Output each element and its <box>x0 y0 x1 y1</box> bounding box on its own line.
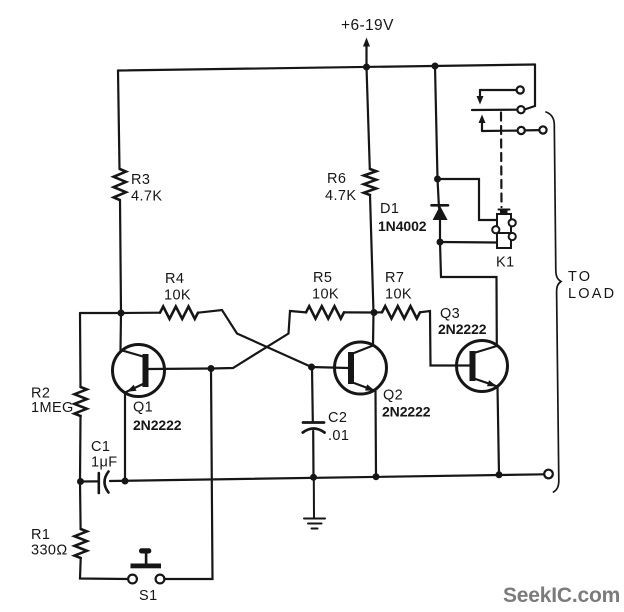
svg-text:1MEG: 1MEG <box>31 400 74 416</box>
svg-text:S1: S1 <box>139 588 158 604</box>
wire: Q3 emitter lead <box>498 387 500 475</box>
node: rail / D1 branch <box>432 63 439 70</box>
wire: left rail down to R3 <box>118 71 120 170</box>
relay actuation dashed link <box>500 113 503 208</box>
label R7 10K <box>385 270 412 303</box>
svg-text:10K: 10K <box>164 288 191 304</box>
ground <box>304 477 325 528</box>
capacitor C1 <box>99 472 109 494</box>
label C2 .01 <box>328 410 349 444</box>
resistor R5 <box>306 306 344 318</box>
svg-text:SeekIC.com: SeekIC.com <box>503 584 620 607</box>
wire: R1 bottom to S1 <box>80 558 128 579</box>
resistor R2 <box>74 387 86 416</box>
wire: R4 to Q2 base (cross link) <box>198 310 312 367</box>
relay contact NO (bottom) <box>479 115 547 135</box>
diode D1 1N4002 <box>432 179 449 242</box>
label Q2 2N2222 <box>382 388 431 420</box>
svg-text:1μF: 1μF <box>91 455 117 471</box>
svg-text:2N2222: 2N2222 <box>382 404 431 420</box>
resistor R6 <box>364 169 376 195</box>
svg-text:.01: .01 <box>328 428 349 444</box>
wire: C1 node down to R1 <box>79 482 82 530</box>
svg-text:LOAD: LOAD <box>568 286 616 302</box>
wire: R3 to Q1 collector node <box>120 200 121 313</box>
label R5 10K <box>312 270 339 303</box>
wire: coil node to Q3 collector <box>440 242 497 346</box>
switch S1 contact left <box>128 575 137 584</box>
svg-text:Q2: Q2 <box>383 388 403 404</box>
label C1 1uF <box>91 439 117 471</box>
wire: D1 top to coil top <box>438 179 498 220</box>
wire: Q1 emitter lead <box>124 393 126 482</box>
label R1 330ohm <box>31 527 68 559</box>
relay contact NC (top) <box>477 86 524 104</box>
wire: Q1 base to R5 (cross link) <box>211 311 306 369</box>
wire: R2 to C1 node <box>79 416 82 482</box>
node: R5/R6/R7 junction <box>371 309 378 316</box>
node: Q2 emitter / rail <box>373 473 380 480</box>
svg-text:4.7K: 4.7K <box>325 188 356 204</box>
label Q1 2N2222 <box>133 400 182 434</box>
svg-text:Q1: Q1 <box>133 400 153 416</box>
node: Q1 base <box>208 365 215 372</box>
terminal: load bottom <box>544 470 553 479</box>
node: D1 bottom <box>437 239 444 246</box>
label R3 4.7K <box>131 172 162 205</box>
svg-text:R6: R6 <box>327 171 346 187</box>
wire: rail drop to relay pole <box>525 65 536 110</box>
resistor R1 <box>75 529 87 558</box>
wire: S1 to Q1 base riser <box>164 369 212 580</box>
node: R3/R4/R2 junction <box>118 310 125 317</box>
resistor R7 <box>382 306 420 318</box>
switch S1 button <box>131 548 162 568</box>
transistor Q1 2N2222 <box>113 345 212 397</box>
node: rail / R6 branch <box>363 64 370 71</box>
svg-text:1N4002: 1N4002 <box>378 218 427 234</box>
node: Q3 emitter / rail <box>496 471 503 478</box>
wire: D1 bottom to coil bottom <box>440 241 497 244</box>
wire: Q2 emitter lead <box>374 391 377 477</box>
wire: bottom rail left (C1 left lead) <box>80 480 97 482</box>
resistor R3 <box>114 169 126 200</box>
resistor R4 <box>160 307 198 319</box>
wire: down to R2 <box>79 313 82 387</box>
node: Q2 base <box>308 364 315 371</box>
wire: R7 left lead <box>374 311 382 313</box>
svg-text:10K: 10K <box>385 287 412 303</box>
label R6 4.7K <box>325 171 356 204</box>
wire: +V top rail <box>118 65 535 71</box>
label R2 1MEG <box>31 386 74 417</box>
wire: R4 left lead <box>121 312 160 314</box>
relay coil K1 <box>492 210 516 249</box>
svg-text:K1: K1 <box>496 255 515 271</box>
transistor Q3 2N2222 <box>457 341 508 392</box>
node: C1 right / Q1 emitter <box>122 478 129 485</box>
svg-text:R1: R1 <box>31 527 50 543</box>
wire: R2 top tap <box>80 312 121 314</box>
wire: Q2 base node to C2 <box>311 367 314 421</box>
svg-text:Q3: Q3 <box>440 306 460 322</box>
capacitor C2 <box>303 423 325 433</box>
svg-text:R5: R5 <box>313 270 332 286</box>
svg-text:330Ω: 330Ω <box>31 543 68 559</box>
svg-text:4.7K: 4.7K <box>131 189 162 205</box>
wire: rail to D1 <box>435 66 438 179</box>
wire: R7 to Q3 base <box>420 311 470 366</box>
wire: C2 to rail <box>312 431 314 477</box>
wire: bottom rail <box>110 474 544 481</box>
wire: Q1 collector lead <box>119 313 122 350</box>
node: D1 top <box>434 176 441 183</box>
label TO LOAD <box>568 269 616 302</box>
svg-text:C1: C1 <box>91 439 110 455</box>
svg-text:C2: C2 <box>328 410 347 426</box>
wire: rail to R6 <box>367 67 370 169</box>
svg-text:10K: 10K <box>312 287 339 303</box>
svg-text:R3: R3 <box>131 172 150 188</box>
svg-text:+6-19V: +6-19V <box>341 17 394 34</box>
transistor Q2 2N2222 <box>312 342 387 394</box>
wire: R5 right lead <box>344 311 374 313</box>
node: R2/R1/C1 junction <box>77 478 84 485</box>
brace: TO LOAD <box>546 112 561 492</box>
svg-text:2N2222: 2N2222 <box>133 417 182 433</box>
svg-text:D1: D1 <box>380 201 399 217</box>
label Q3 2N2222 <box>438 306 487 337</box>
wire: R6 to Q2 collector <box>370 195 374 346</box>
svg-text:R4: R4 <box>165 271 184 287</box>
svg-text:R7: R7 <box>385 270 404 286</box>
relay pole (common) <box>472 106 525 113</box>
supply arrow <box>363 38 370 67</box>
svg-text:2N2222: 2N2222 <box>438 321 487 337</box>
svg-text:TO: TO <box>568 269 592 285</box>
node: C2 / ground / rail <box>310 474 317 481</box>
label R4 10K <box>164 271 191 304</box>
label D1 1N4002 <box>378 201 427 234</box>
switch S1 contact right <box>156 575 165 584</box>
